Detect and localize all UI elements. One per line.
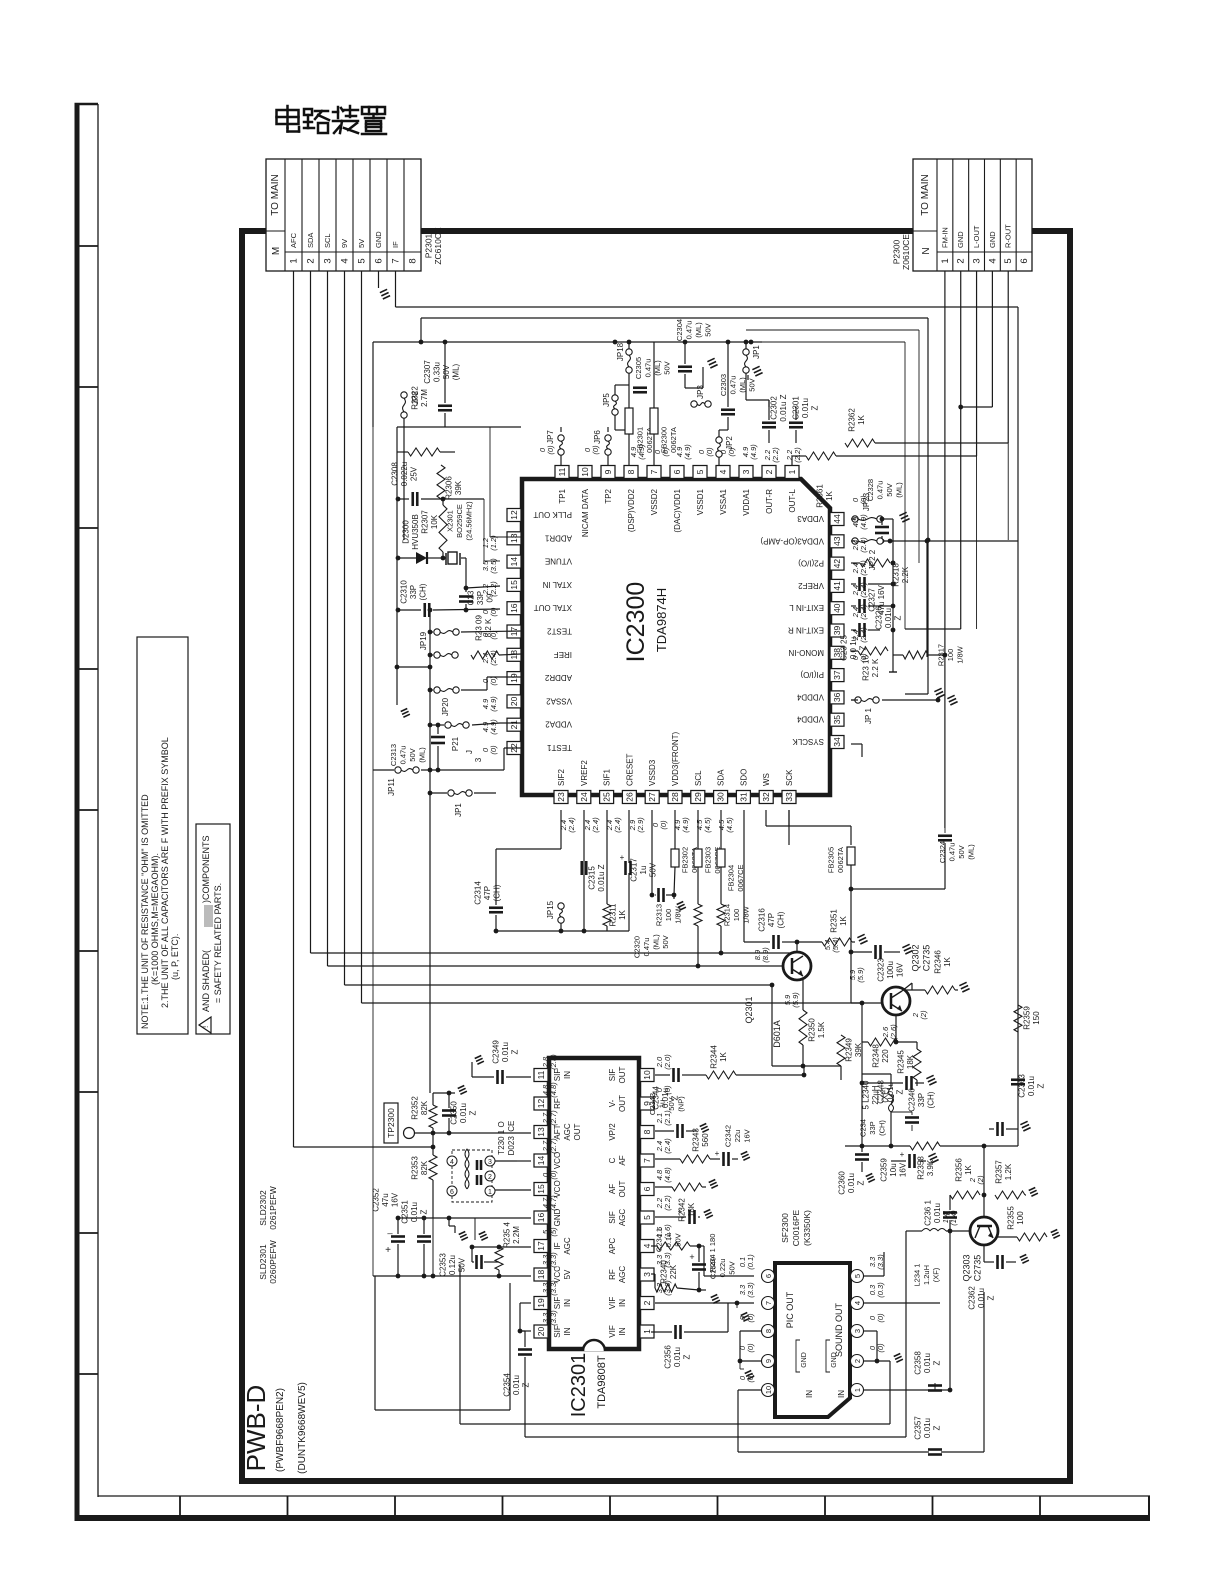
wire x862 down — [861, 1042, 863, 1152]
svg-text:1: 1 — [289, 258, 300, 263]
svg-text:TP2300: TP2300 — [386, 1108, 396, 1138]
wire M pin5 5V right — [362, 1002, 863, 1004]
svg-text:APC: APC — [608, 1238, 617, 1255]
svg-text:(0): (0) — [876, 1313, 885, 1323]
svg-text:!: ! — [201, 1026, 210, 1028]
svg-text:ADDR2: ADDR2 — [544, 673, 572, 682]
svg-text:V-: V- — [608, 1099, 617, 1107]
svg-text:R2358: R2358 — [916, 1156, 925, 1180]
capacitor C2348 0.01u — [905, 1076, 908, 1090]
svg-text:(K3350K): (K3350K) — [802, 1210, 812, 1246]
svg-text:(0): (0) — [859, 653, 868, 663]
svg-text:Z: Z — [469, 1110, 478, 1115]
svg-text:(ML): (ML) — [894, 482, 903, 498]
ground c2347 — [1020, 1121, 1027, 1124]
svg-text:(0): (0) — [876, 1343, 885, 1353]
svg-text:R2361: R2361 — [815, 484, 824, 508]
svg-text:0261PEFW: 0261PEFW — [268, 1186, 278, 1229]
svg-text:47u: 47u — [381, 1193, 390, 1206]
wire 1003 bus — [851, 1002, 882, 1004]
svg-text:1K: 1K — [943, 956, 952, 966]
jumper JP8 — [401, 392, 407, 398]
wire R2362 right — [875, 442, 1008, 444]
ground C2304 — [707, 358, 714, 361]
node x928 y540 — [926, 538, 931, 543]
svg-text:(0): (0) — [746, 1313, 755, 1323]
svg-text:C2353: C2353 — [439, 1253, 448, 1277]
bottom ruler tick 5 — [609, 1496, 611, 1518]
svg-text:C2303: C2303 — [719, 374, 728, 396]
svg-text:(0): (0) — [489, 676, 498, 686]
wire bottom 1276 bus — [373, 1275, 531, 1277]
svg-text:OUT-R: OUT-R — [765, 489, 774, 514]
svg-text:2: 2 — [956, 258, 967, 263]
svg-text:13: 13 — [509, 533, 519, 543]
wire T2301 to pin14 — [495, 1160, 517, 1162]
svg-text:VSSD3: VSSD3 — [648, 759, 657, 786]
node N2-N4 join — [958, 405, 963, 410]
svg-text:13: 13 — [536, 1127, 546, 1137]
wire x804 down — [803, 1066, 805, 1075]
svg-text:12: 12 — [509, 510, 519, 520]
svg-text:(0): (0) — [859, 495, 868, 505]
svg-text:5: 5 — [1003, 258, 1014, 263]
IC2300 pin 6 box — [670, 466, 684, 479]
svg-text:25: 25 — [602, 792, 612, 802]
wire R2361 right — [836, 455, 977, 457]
IC2300 pin 30 box — [714, 791, 728, 804]
svg-text:100: 100 — [946, 649, 955, 662]
svg-text:AF: AF — [618, 1155, 627, 1165]
svg-text:(0): (0) — [489, 745, 498, 755]
capacitor C2347 33P — [996, 1122, 999, 1136]
svg-text:VIF: VIF — [608, 1325, 617, 1338]
svg-text:3: 3 — [474, 757, 483, 762]
svg-text:J: J — [465, 750, 474, 754]
svg-text:C2357: C2357 — [914, 1416, 923, 1440]
svg-text:(DAC)VDD1: (DAC)VDD1 — [673, 488, 682, 532]
IC2301 pin 3 box — [640, 1268, 654, 1281]
ground r2342 — [709, 1179, 716, 1182]
svg-text:+: + — [900, 1150, 905, 1159]
IC2300 pin 41 box — [830, 579, 844, 592]
IC2300 pin 1 box — [785, 466, 799, 479]
bottom ruler tick 4 — [502, 1496, 504, 1518]
svg-text:)COMPONENTS: )COMPONENTS — [201, 836, 211, 904]
capacitor C2302 0.01u — [762, 421, 776, 424]
svg-text:(2.2): (2.2) — [489, 581, 498, 597]
jumper JP19 — [434, 652, 440, 658]
IC2301 pin 19 box — [534, 1297, 548, 1310]
resistor R2344 1K — [706, 1071, 736, 1079]
svg-text:(2): (2) — [976, 1175, 985, 1185]
svg-text:(0.3): (0.3) — [876, 1282, 885, 1298]
capacitor C2352 47u 16V — [391, 1235, 405, 1238]
jumper JP1 left — [448, 790, 454, 796]
main frame — [242, 231, 1070, 1481]
IC2300 pin 7 box — [647, 466, 661, 479]
wire IF bus down right side — [1017, 307, 1019, 1146]
svg-text:TEST1: TEST1 — [547, 743, 572, 752]
resistor R2317 100 1/8W — [903, 651, 928, 659]
svg-text:(0): (0) — [489, 607, 498, 617]
capacitor C2341 0.1u 50V — [688, 1210, 691, 1224]
svg-text:0.47u: 0.47u — [643, 359, 652, 378]
svg-text:(2.7): (2.7) — [549, 1110, 558, 1126]
svg-text:(2.4): (2.4) — [613, 817, 622, 833]
svg-text:JP20: JP20 — [441, 697, 450, 716]
svg-text:10K: 10K — [430, 514, 439, 529]
svg-text:40: 40 — [832, 603, 842, 613]
resistor R2348 220 — [868, 1038, 898, 1046]
svg-text:TO MAIN: TO MAIN — [270, 174, 281, 215]
svg-text:R2357: R2357 — [994, 1160, 1003, 1184]
left ruler top cap — [75, 103, 99, 106]
svg-text:L-OUT: L-OUT — [972, 225, 981, 248]
wire q2302 down — [895, 1015, 897, 1042]
svg-text:C234: C234 — [859, 1119, 868, 1137]
resistor R2314 100 1/8W — [717, 904, 725, 926]
svg-text:C23: C23 — [467, 590, 476, 605]
svg-text:(1.2): (1.2) — [489, 535, 498, 551]
svg-text:0062TA: 0062TA — [836, 847, 845, 873]
svg-text:(2.4): (2.4) — [663, 1138, 672, 1154]
svg-text:C2308: C2308 — [391, 462, 400, 486]
svg-text:SOUND OUT: SOUND OUT — [834, 1302, 844, 1357]
wire x851 down — [850, 889, 852, 952]
svg-text:(0): (0) — [659, 820, 668, 830]
svg-text:C23 25: C23 25 — [840, 635, 849, 661]
svg-text:OUT: OUT — [618, 1180, 627, 1197]
svg-text:0.01u Z: 0.01u Z — [597, 864, 606, 891]
svg-text:TP1: TP1 — [558, 488, 567, 503]
svg-text:2: 2 — [642, 1300, 652, 1305]
svg-text:30: 30 — [716, 792, 726, 802]
svg-text:26: 26 — [624, 792, 634, 802]
svg-text:TDA9874H: TDA9874H — [654, 588, 669, 652]
svg-text:1.2uH: 1.2uH — [922, 1265, 931, 1285]
svg-text:D023 ICE: D023 ICE — [507, 1121, 516, 1156]
wire FB2301 stems — [628, 395, 630, 408]
svg-text:(4.8): (4.8) — [549, 1082, 558, 1098]
svg-text:(3.3): (3.3) — [549, 1252, 558, 1268]
svg-text:6: 6 — [1019, 258, 1030, 263]
wire N3 vertical ext — [976, 456, 978, 629]
svg-text:16V: 16V — [743, 1129, 752, 1142]
svg-text:PI(I/O): PI(I/O) — [800, 670, 824, 679]
capacitor C2320 0.47u — [657, 888, 660, 902]
svg-text:0.01u: 0.01u — [410, 1202, 419, 1222]
IC2301 pin 14 box — [534, 1154, 548, 1167]
wire JP8 down — [403, 418, 405, 540]
svg-text:0.01u: 0.01u — [923, 1418, 932, 1438]
svg-text:SIF: SIF — [608, 1069, 617, 1082]
resistor R2322 — [408, 448, 440, 456]
wire M pin3 SCL right — [328, 965, 784, 967]
svg-text:22uH: 22uH — [871, 1085, 880, 1104]
svg-text:7: 7 — [764, 1301, 773, 1305]
svg-text:1: 1 — [940, 258, 951, 263]
IC2300 pin 15 box — [507, 578, 521, 591]
IC2300 pin 3 box — [739, 466, 753, 479]
svg-text:JP3: JP3 — [696, 385, 705, 399]
IC2301 pin 13 box — [534, 1126, 548, 1139]
IC2300 pin 39 box — [830, 624, 844, 637]
svg-text:2: 2 — [853, 1359, 862, 1363]
svg-text:+: + — [689, 1252, 694, 1262]
title char 装 — [337, 107, 340, 118]
svg-text:(0): (0) — [661, 447, 670, 457]
svg-text:SIF: SIF — [553, 1297, 562, 1310]
svg-text:R2353: R2353 — [410, 1156, 419, 1180]
IC2301 pin 8 box — [640, 1126, 654, 1139]
IC2300 pin 19 box — [507, 672, 521, 685]
svg-text:(0): (0) — [746, 1343, 755, 1353]
svg-text:100u: 100u — [886, 961, 895, 979]
svg-text:3: 3 — [488, 1159, 492, 1166]
svg-text:C2310: C2310 — [400, 580, 409, 604]
svg-text:1K: 1K — [618, 909, 627, 919]
capacitor C2314 47P — [489, 906, 503, 909]
svg-text:0.01u: 0.01u — [977, 1288, 986, 1308]
safety triangle — [199, 1017, 211, 1033]
svg-text:(DSP)VDD2: (DSP)VDD2 — [627, 488, 636, 532]
svg-text:C2314: C2314 — [474, 881, 483, 905]
svg-text:0.01u: 0.01u — [512, 1375, 521, 1395]
svg-text:VDDA3: VDDA3 — [797, 514, 824, 523]
wire pin33 SCK down — [788, 810, 790, 826]
svg-text:IN: IN — [563, 1071, 572, 1079]
svg-text:0.01u: 0.01u — [673, 1347, 682, 1367]
SF2300 pin 1 — [851, 1384, 864, 1397]
jumper JP20 — [434, 687, 440, 693]
svg-text:(3.3): (3.3) — [663, 1280, 672, 1296]
IC2300 pin 17 box — [507, 625, 521, 638]
svg-text:(5): (5) — [549, 1227, 558, 1237]
resistor R2340 22K — [655, 1284, 677, 1292]
svg-text:50V: 50V — [662, 361, 671, 374]
svg-text:50V: 50V — [728, 1261, 737, 1274]
resistor R2318 2.2K — [860, 559, 890, 567]
wire N pin2 GND down — [960, 271, 962, 629]
svg-text:WS: WS — [762, 773, 771, 786]
svg-text:(2.6): (2.6) — [889, 1024, 898, 1040]
svg-text:MONO-IN: MONO-IN — [788, 648, 824, 657]
svg-text:JP7: JP7 — [546, 430, 555, 444]
inductor L2341 1.2uH — [922, 1229, 946, 1232]
svg-text:VREF2: VREF2 — [580, 760, 589, 786]
IC2300 pin 8 box — [624, 466, 638, 479]
svg-text:IF: IF — [553, 1242, 562, 1249]
capacitor C2308 0.022u 25V — [411, 492, 414, 506]
svg-text:(2.4): (2.4) — [859, 627, 868, 643]
svg-text:FB2305: FB2305 — [826, 847, 835, 873]
svg-text:50V: 50V — [667, 1097, 676, 1110]
svg-text:TDA9808T: TDA9808T — [596, 1355, 608, 1408]
svg-text:SDO: SDO — [739, 769, 748, 786]
svg-text:(3.3): (3.3) — [876, 1254, 885, 1270]
ground pin16 a — [459, 1231, 466, 1234]
svg-text:GND: GND — [801, 1352, 808, 1368]
svg-text:(2.4): (2.4) — [859, 604, 868, 620]
svg-text:50V: 50V — [703, 323, 712, 336]
wire pin13 link — [490, 536, 521, 538]
svg-text:C2342: C2342 — [724, 1125, 733, 1147]
svg-text:0.22u: 0.22u — [718, 1259, 727, 1278]
ferrite bead FB2304 0067CE — [717, 849, 725, 867]
svg-text:12: 12 — [536, 1099, 546, 1109]
bottom ruler tick 3 — [394, 1496, 396, 1518]
wire pin22 link — [503, 748, 505, 770]
wire sf pin1 right — [863, 1389, 950, 1391]
capacitor C2356 0.01u — [674, 1325, 677, 1339]
svg-text:33P: 33P — [409, 585, 418, 599]
svg-text:(4.9): (4.9) — [489, 696, 498, 712]
capacitor C2346 33P — [905, 1116, 919, 1119]
capacitor C2358 0.01u — [928, 1384, 942, 1387]
svg-text:16: 16 — [509, 603, 519, 613]
resistor R2353 82K — [429, 1155, 437, 1180]
capacitor C2309 33P — [459, 595, 473, 598]
svg-text:C2343: C2343 — [648, 1093, 657, 1115]
capacitor C2317 1u — [624, 861, 627, 875]
resistor R2343 560 — [680, 1155, 710, 1163]
SF2300 pin 7 — [762, 1297, 775, 1310]
jumper JP22 — [852, 538, 858, 544]
wire N pin5 R-OUT down — [1007, 271, 1009, 443]
wire M pin5 5V down — [361, 271, 363, 1003]
svg-text:SCL: SCL — [694, 770, 703, 786]
svg-text:NOTE:1.THE UNIT OF RESISTANCE: NOTE:1.THE UNIT OF RESISTANCE "OHM" IS O… — [140, 794, 150, 1029]
svg-text:5: 5 — [695, 469, 705, 474]
svg-text:(3.3): (3.3) — [549, 1310, 558, 1326]
svg-text:9: 9 — [603, 469, 613, 474]
IC2300 pin 25 box — [600, 791, 614, 804]
svg-text:(2.9): (2.9) — [636, 817, 645, 833]
svg-text:C: C — [608, 1157, 617, 1163]
capacitor C2315 0.01u — [580, 861, 583, 875]
svg-text:1u: 1u — [657, 1100, 666, 1108]
svg-text:GND: GND — [956, 231, 965, 248]
svg-text:6: 6 — [374, 258, 385, 263]
wire x397 lower — [396, 640, 398, 667]
svg-text:C2362: C2362 — [968, 1286, 977, 1310]
svg-text:47P: 47P — [767, 913, 776, 927]
capacitor C2363 0.01u — [1011, 1078, 1025, 1081]
jumper JP11 — [395, 767, 401, 773]
svg-text:(5.9): (5.9) — [791, 992, 800, 1008]
svg-text:OUT-L: OUT-L — [788, 488, 797, 512]
svg-text:Z: Z — [857, 1180, 866, 1185]
svg-text:(CH): (CH) — [927, 1091, 936, 1108]
svg-text:Z: Z — [420, 1209, 429, 1214]
svg-text:4: 4 — [450, 1159, 454, 1166]
svg-text:(CH): (CH) — [878, 1120, 887, 1136]
svg-text:OUT: OUT — [573, 1123, 582, 1140]
svg-text:C2323: C2323 — [877, 958, 886, 982]
wire r2353 to 1276 — [432, 1218, 434, 1276]
wire sf pin3 stub — [863, 1330, 877, 1332]
svg-text:NICAM DATA: NICAM DATA — [581, 488, 590, 537]
svg-text:SLD2302: SLD2302 — [258, 1190, 268, 1226]
SF2300 pin 4 — [851, 1297, 864, 1310]
IC2300 pin 27 box — [645, 791, 659, 804]
svg-text:7: 7 — [391, 258, 402, 263]
svg-text:0.33u: 0.33u — [432, 362, 441, 382]
svg-text:R2343: R2343 — [691, 1128, 700, 1152]
svg-text:P2300: P2300 — [891, 239, 901, 264]
IC2301 pin 12 box — [534, 1097, 548, 1110]
svg-text:SCL: SCL — [323, 233, 332, 248]
svg-text:Z: Z — [896, 1089, 905, 1094]
wire M pin2 SDA down — [310, 271, 312, 953]
IC2300 pin 20 box — [507, 695, 521, 708]
svg-text:2.7M: 2.7M — [420, 389, 429, 407]
svg-text:1K: 1K — [857, 414, 866, 424]
svg-text:SIF: SIF — [608, 1211, 617, 1224]
svg-text:(4.9): (4.9) — [489, 719, 498, 735]
svg-text:IN: IN — [618, 1299, 627, 1307]
svg-text:(4.9): (4.9) — [637, 444, 646, 460]
svg-text:1K: 1K — [825, 490, 834, 500]
transformer T2301 D023 ICE — [452, 1150, 492, 1202]
svg-text:0.47u: 0.47u — [947, 843, 956, 862]
svg-text:(3.5): (3.5) — [489, 558, 498, 574]
svg-text:6: 6 — [764, 1274, 773, 1278]
svg-text:(CH): (CH) — [493, 884, 502, 901]
svg-text:TEST2: TEST2 — [547, 627, 572, 636]
ground x397 — [401, 708, 408, 711]
svg-text:0.01u: 0.01u — [923, 1353, 932, 1373]
jumper JP21 — [855, 697, 861, 703]
svg-text:C2735: C2735 — [922, 945, 932, 972]
ground r2346 — [959, 982, 966, 985]
jumper JP5 — [612, 395, 618, 401]
svg-text:R2311: R2311 — [608, 903, 617, 927]
IC2301 pin 11 box — [534, 1069, 548, 1082]
jumper JP7 with stem — [560, 427, 562, 432]
svg-text:5: 5 — [642, 1215, 652, 1220]
left ruler divider 8 — [75, 1232, 99, 1234]
svg-text:VDDA2: VDDA2 — [545, 720, 572, 729]
svg-text:34: 34 — [832, 737, 842, 747]
svg-text:XTAL IN: XTAL IN — [542, 580, 572, 589]
svg-text:29: 29 — [693, 792, 703, 802]
wire c2352 — [397, 1218, 399, 1234]
IC2300 pin 9 box — [601, 466, 615, 479]
svg-text:(5.4): (5.4) — [831, 937, 840, 953]
svg-text:R2355: R2355 — [1006, 1206, 1015, 1230]
svg-text:10: 10 — [764, 1386, 773, 1394]
svg-text:VTUNE: VTUNE — [545, 557, 572, 566]
capacitor C2310 33P — [423, 603, 426, 617]
svg-text:FB2304: FB2304 — [726, 865, 735, 891]
svg-text:FM-IN: FM-IN — [940, 227, 949, 248]
svg-text:25V: 25V — [410, 466, 419, 481]
svg-text:2: 2 — [764, 469, 774, 474]
left ruler divider 9 — [75, 1373, 99, 1375]
svg-text:37: 37 — [832, 670, 842, 680]
IC2300 pin 4 box — [716, 466, 730, 479]
svg-text:Z: Z — [933, 1425, 942, 1430]
svg-text:2: 2 — [488, 1174, 492, 1181]
svg-text:TP2: TP2 — [604, 488, 613, 503]
resistor R23 09 8.2K — [471, 651, 499, 659]
ground r2352 — [458, 1085, 465, 1088]
svg-text:VDD3(FRONT): VDD3(FRONT) — [671, 731, 680, 786]
svg-text:BO259CE: BO259CE — [455, 504, 464, 538]
op-amp IC2301 TDA9808T body — [549, 1058, 639, 1349]
